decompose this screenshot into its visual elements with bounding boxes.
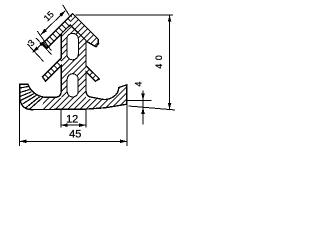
dim 15 dimension line with arrows	[41, 11, 66, 35]
dim 12 left extension line	[60, 109, 62, 127]
svg-text:40: 40	[154, 52, 164, 69]
dim 45 dimension line with arrows	[20, 140, 127, 142]
dim 4 lower arrow pointing up	[142, 107, 144, 124]
dim 3 dimension line with arrows	[33, 40, 46, 52]
dim 40 dimension line with arrows	[169, 15, 171, 110]
dim 15 upper extension stroke at ridge	[63, 5, 70, 16]
svg-text:4: 4	[133, 82, 143, 87]
svg-text:12: 12	[66, 113, 78, 125]
dim 4 top extension line from base top surface	[127, 99, 151, 101]
dim 45 left extension line	[19, 97, 21, 146]
dim 15 lower extension stroke	[37, 31, 51, 51]
dim 4 upper arrow pointing down	[142, 91, 144, 101]
dim 3 upper extension stroke	[36, 38, 52, 55]
section hatching: right barb fin	[86, 66, 99, 82]
dim 12 dimension line with arrows	[61, 124, 86, 126]
section hatching: left curl hook rungs	[20, 87, 43, 110]
dim 3 lower extension stroke	[28, 44, 44, 62]
dim 4 line segment between extensions	[142, 100, 144, 107]
dim 40 bottom extension line from base underside	[129, 106, 176, 110]
dimension 40: overall height	[76, 15, 176, 110]
dim 40 top extension line from ridge	[76, 14, 173, 16]
dim 45 right extension line	[126, 104, 128, 146]
lower oblong slot window in stem	[67, 74, 78, 97]
section hatching: right roof cap strip	[70, 14, 98, 47]
dimension 45: base flange overall width	[20, 97, 127, 146]
profile outline: arrow roof cap, stem with barbs, base flange with left curl and right lip	[20, 14, 127, 110]
dimension 4: base flange thickness	[127, 91, 151, 125]
upper oblong slot window in stem	[67, 33, 78, 59]
section hatching: central stem web	[61, 25, 86, 99]
roof cap underside edges over stem	[61, 25, 86, 41]
dimension 12: stem width	[61, 109, 86, 127]
section hatching: base flange band	[41, 85, 127, 110]
dim 12 right extension line	[85, 109, 87, 127]
svg-text:45: 45	[69, 128, 81, 140]
dimension 3: roof cap thickness	[28, 38, 52, 62]
dimension 15: roof cap slope length	[37, 5, 69, 51]
section hatching: left barb fin	[43, 58, 62, 81]
section hatching: left roof cap strip	[43, 14, 73, 49]
